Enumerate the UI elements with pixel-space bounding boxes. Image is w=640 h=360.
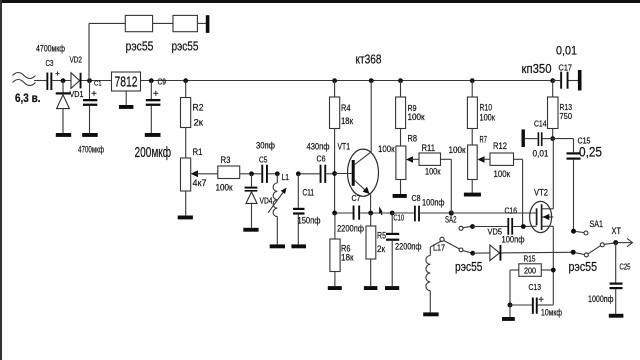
ground below C10 <box>385 286 399 290</box>
relay coil RES55 no.1 <box>125 15 153 53</box>
ground below C25 <box>609 314 624 318</box>
inductor L17 <box>426 241 445 312</box>
capacitor C14 <box>525 119 553 160</box>
node R10 bus <box>470 78 475 83</box>
node C16/R12 <box>521 224 526 229</box>
resistor R2 <box>181 81 204 128</box>
svg-text:0,25: 0,25 <box>579 144 602 160</box>
svg-text:C11: C11 <box>303 188 315 198</box>
node VT1 base <box>332 171 337 176</box>
svg-text:2200пф: 2200пф <box>395 242 422 253</box>
capacitor C3 <box>36 44 65 91</box>
svg-text:100к: 100к <box>408 112 425 122</box>
svg-text:100к: 100к <box>494 169 511 180</box>
svg-text:VT1: VT1 <box>338 142 351 152</box>
svg-text:0,01: 0,01 <box>556 44 577 58</box>
svg-text:C5: C5 <box>259 155 268 165</box>
svg-text:2к: 2к <box>377 244 385 254</box>
svg-text:4700мкф: 4700мкф <box>36 44 65 54</box>
terminal bar left of C14 <box>522 129 525 147</box>
svg-text:R8: R8 <box>408 134 418 144</box>
wire to terminal <box>197 22 206 24</box>
capacitor C5 <box>254 141 276 183</box>
ground below L1 <box>270 244 285 248</box>
node R9 bus <box>398 78 403 83</box>
wire VD2 to 7812 <box>82 80 112 82</box>
svg-text:R10: R10 <box>480 103 493 113</box>
svg-text:200мкф: 200мкф <box>135 144 172 161</box>
node A junction <box>61 78 66 83</box>
wire top rail <box>89 22 125 24</box>
node C11 <box>296 171 301 176</box>
capacitor C11 <box>293 174 321 245</box>
svg-text:2200пф: 2200пф <box>337 224 364 235</box>
svg-text:VD1: VD1 <box>70 89 84 99</box>
svg-text:рэс55: рэс55 <box>126 39 154 54</box>
wire VD5 to right contact <box>501 251 571 254</box>
node emitter <box>368 211 373 216</box>
resistor R9 <box>396 81 425 129</box>
node VT1 collector bus <box>369 78 374 83</box>
svg-text:C7: C7 <box>352 193 361 203</box>
node C10 <box>390 211 395 216</box>
ground below R5 <box>364 286 378 290</box>
svg-text:R5: R5 <box>377 231 386 241</box>
diode VD5 <box>488 227 503 261</box>
svg-text:7812: 7812 <box>115 75 138 91</box>
svg-text:C14: C14 <box>534 119 547 129</box>
svg-text:C10: C10 <box>394 213 405 223</box>
wire emitter row <box>335 212 353 214</box>
inductor L1 variable <box>268 172 289 244</box>
capacitor C16 <box>502 206 537 246</box>
ground below VD1 <box>56 133 71 137</box>
transistor VT1 <box>335 81 379 214</box>
resistor R13 <box>548 81 573 139</box>
capacitor C25 <box>588 243 631 314</box>
svg-text:SA2: SA2 <box>445 215 457 225</box>
varicap VD4 <box>245 174 273 228</box>
svg-text:C25: C25 <box>620 262 631 272</box>
regulator 7812 <box>112 72 141 105</box>
node SA2 <box>449 210 454 215</box>
ground below L17 <box>423 312 438 316</box>
ground below C13 <box>502 317 515 321</box>
relay coil RES55 no.2 <box>172 15 199 53</box>
diode VD1 vertical <box>56 81 84 134</box>
svg-text:100к: 100к <box>449 145 467 156</box>
potentiometer R1 <box>181 128 218 216</box>
svg-text:VD2: VD2 <box>70 55 83 65</box>
resistor R11 <box>411 143 451 213</box>
terminal bar right of C17 <box>578 70 582 91</box>
top border bar <box>0 0 640 3</box>
capacitor C6 <box>300 142 334 183</box>
svg-text:4к7: 4к7 <box>193 178 207 188</box>
svg-text:C16: C16 <box>505 206 518 216</box>
svg-text:C1: C1 <box>94 79 102 88</box>
svg-text:10мкф: 10мкф <box>541 308 562 318</box>
svg-text:C9: C9 <box>158 78 167 87</box>
capacitor C17 <box>553 44 578 89</box>
capacitor C1 electrolytic <box>78 79 104 155</box>
svg-text:C6: C6 <box>317 154 326 164</box>
svg-text:R3: R3 <box>221 155 231 165</box>
ground below R6 <box>328 286 342 290</box>
potentiometer R7 <box>449 129 488 193</box>
capacitor C9 electrolytic <box>135 78 172 162</box>
svg-text:100пф: 100пф <box>422 198 445 209</box>
node right contact <box>571 250 576 255</box>
ground below R7 <box>464 193 481 197</box>
svg-text:рэс55: рэс55 <box>172 39 199 54</box>
potentiometer R8 <box>378 129 417 195</box>
ground below VD4 <box>243 228 258 232</box>
svg-text:VT2: VT2 <box>534 188 548 198</box>
ground below C9 <box>145 133 161 137</box>
node VD4/C5 <box>249 171 254 176</box>
node R4 bus <box>332 78 337 83</box>
svg-text:C8: C8 <box>412 193 421 203</box>
svg-text:R15: R15 <box>524 255 536 264</box>
svg-text:C13: C13 <box>529 282 542 292</box>
ground below 7812 <box>119 105 133 109</box>
svg-text:R11: R11 <box>422 143 436 153</box>
node C17/R13 bus <box>550 78 555 83</box>
svg-text:2к: 2к <box>194 118 204 128</box>
node C9 <box>149 78 154 83</box>
node below R13 <box>550 136 555 141</box>
svg-text:R12: R12 <box>493 141 507 151</box>
node R15 right on source line <box>551 268 556 273</box>
svg-text:4700мкф: 4700мкф <box>78 145 104 155</box>
svg-text:C3: C3 <box>46 58 54 68</box>
terminal bar <box>206 15 210 33</box>
svg-text:430пф: 430пф <box>307 142 330 153</box>
wire riser to relay rail <box>88 23 90 80</box>
node L1 <box>275 171 280 176</box>
node R2 <box>183 78 188 83</box>
svg-text:R2: R2 <box>193 103 204 113</box>
resistor R5 <box>366 213 386 286</box>
svg-text:750: 750 <box>560 111 573 121</box>
capacitor C10 <box>386 213 422 287</box>
svg-text:SA1: SA1 <box>590 219 604 229</box>
svg-text:100пф: 100пф <box>502 235 525 246</box>
XT output arrow <box>612 226 633 247</box>
capacitor C8 <box>392 193 451 221</box>
svg-text:200: 200 <box>524 266 536 275</box>
resistor R12 <box>483 141 523 227</box>
relay contact res55 left <box>440 237 483 274</box>
diode VD2 <box>70 55 83 89</box>
resistor R6 <box>330 213 354 286</box>
resistor R15 with value 200 <box>510 255 553 306</box>
node C13 left <box>508 303 513 308</box>
svg-text:L17: L17 <box>433 243 445 253</box>
ground below R8 <box>393 194 407 198</box>
capacitor C15 <box>553 136 602 230</box>
resistor R4 <box>330 81 354 214</box>
wire source to C3 <box>34 80 46 82</box>
node XT <box>613 240 618 245</box>
resistor R3 <box>216 155 250 193</box>
svg-text:R4: R4 <box>341 103 351 113</box>
svg-text:рэс55: рэс55 <box>569 259 598 274</box>
wire VT2 source down <box>552 226 554 304</box>
svg-text:100к: 100к <box>378 144 395 155</box>
relay contact res55 right <box>569 243 616 274</box>
svg-text:кт368: кт368 <box>356 52 382 67</box>
svg-text:XT: XT <box>612 226 622 236</box>
wire <box>360 212 392 214</box>
svg-text:R1: R1 <box>193 147 203 157</box>
capacitor C7 <box>337 193 364 235</box>
svg-text:L1: L1 <box>282 172 290 182</box>
svg-text:30пф: 30пф <box>256 141 276 151</box>
svg-text:VD4: VD4 <box>260 196 273 206</box>
node at C1 riser <box>87 78 92 83</box>
svg-text:C17: C17 <box>559 63 573 73</box>
wire lower gate row <box>473 226 508 228</box>
svg-text:1000пф: 1000пф <box>588 294 614 305</box>
switch SA2 contact <box>459 224 475 230</box>
svg-text:100к: 100к <box>425 167 441 178</box>
AC source 6,3v waves <box>13 73 41 106</box>
svg-text:кп350: кп350 <box>522 62 552 76</box>
node R6/C7 junction <box>332 211 337 216</box>
svg-text:100к: 100к <box>216 183 233 193</box>
capacitor C13 electrolytic <box>510 282 562 318</box>
wire bus 7812 to C17 <box>141 80 553 82</box>
wire SA2 to VT2 gate1 <box>451 212 536 214</box>
resistor R10 <box>467 81 495 129</box>
svg-text:6,3 в.: 6,3 в. <box>15 93 41 105</box>
svg-text:18к: 18к <box>341 116 353 126</box>
transistor VT2 MOSFET <box>530 188 554 233</box>
svg-text:18к: 18к <box>341 253 354 263</box>
wire <box>52 80 71 82</box>
mouse cursor <box>379 206 383 215</box>
wire VT2 drain to R13 <box>552 139 554 209</box>
ground below C11 <box>291 244 306 248</box>
wire contact to VD5 <box>473 252 490 254</box>
ground below R1 <box>178 216 193 220</box>
wire <box>153 22 173 24</box>
wire C13 node to ground <box>509 305 511 317</box>
svg-text:рэс55: рэс55 <box>455 259 483 274</box>
svg-text:0,01: 0,01 <box>533 149 549 160</box>
svg-text:100к: 100к <box>480 113 496 124</box>
svg-text:VD5: VD5 <box>488 227 503 237</box>
switch SA1 <box>571 219 603 235</box>
svg-text:150пф: 150пф <box>298 216 321 227</box>
ground below C1 <box>82 133 98 137</box>
svg-text:R7: R7 <box>480 135 488 145</box>
